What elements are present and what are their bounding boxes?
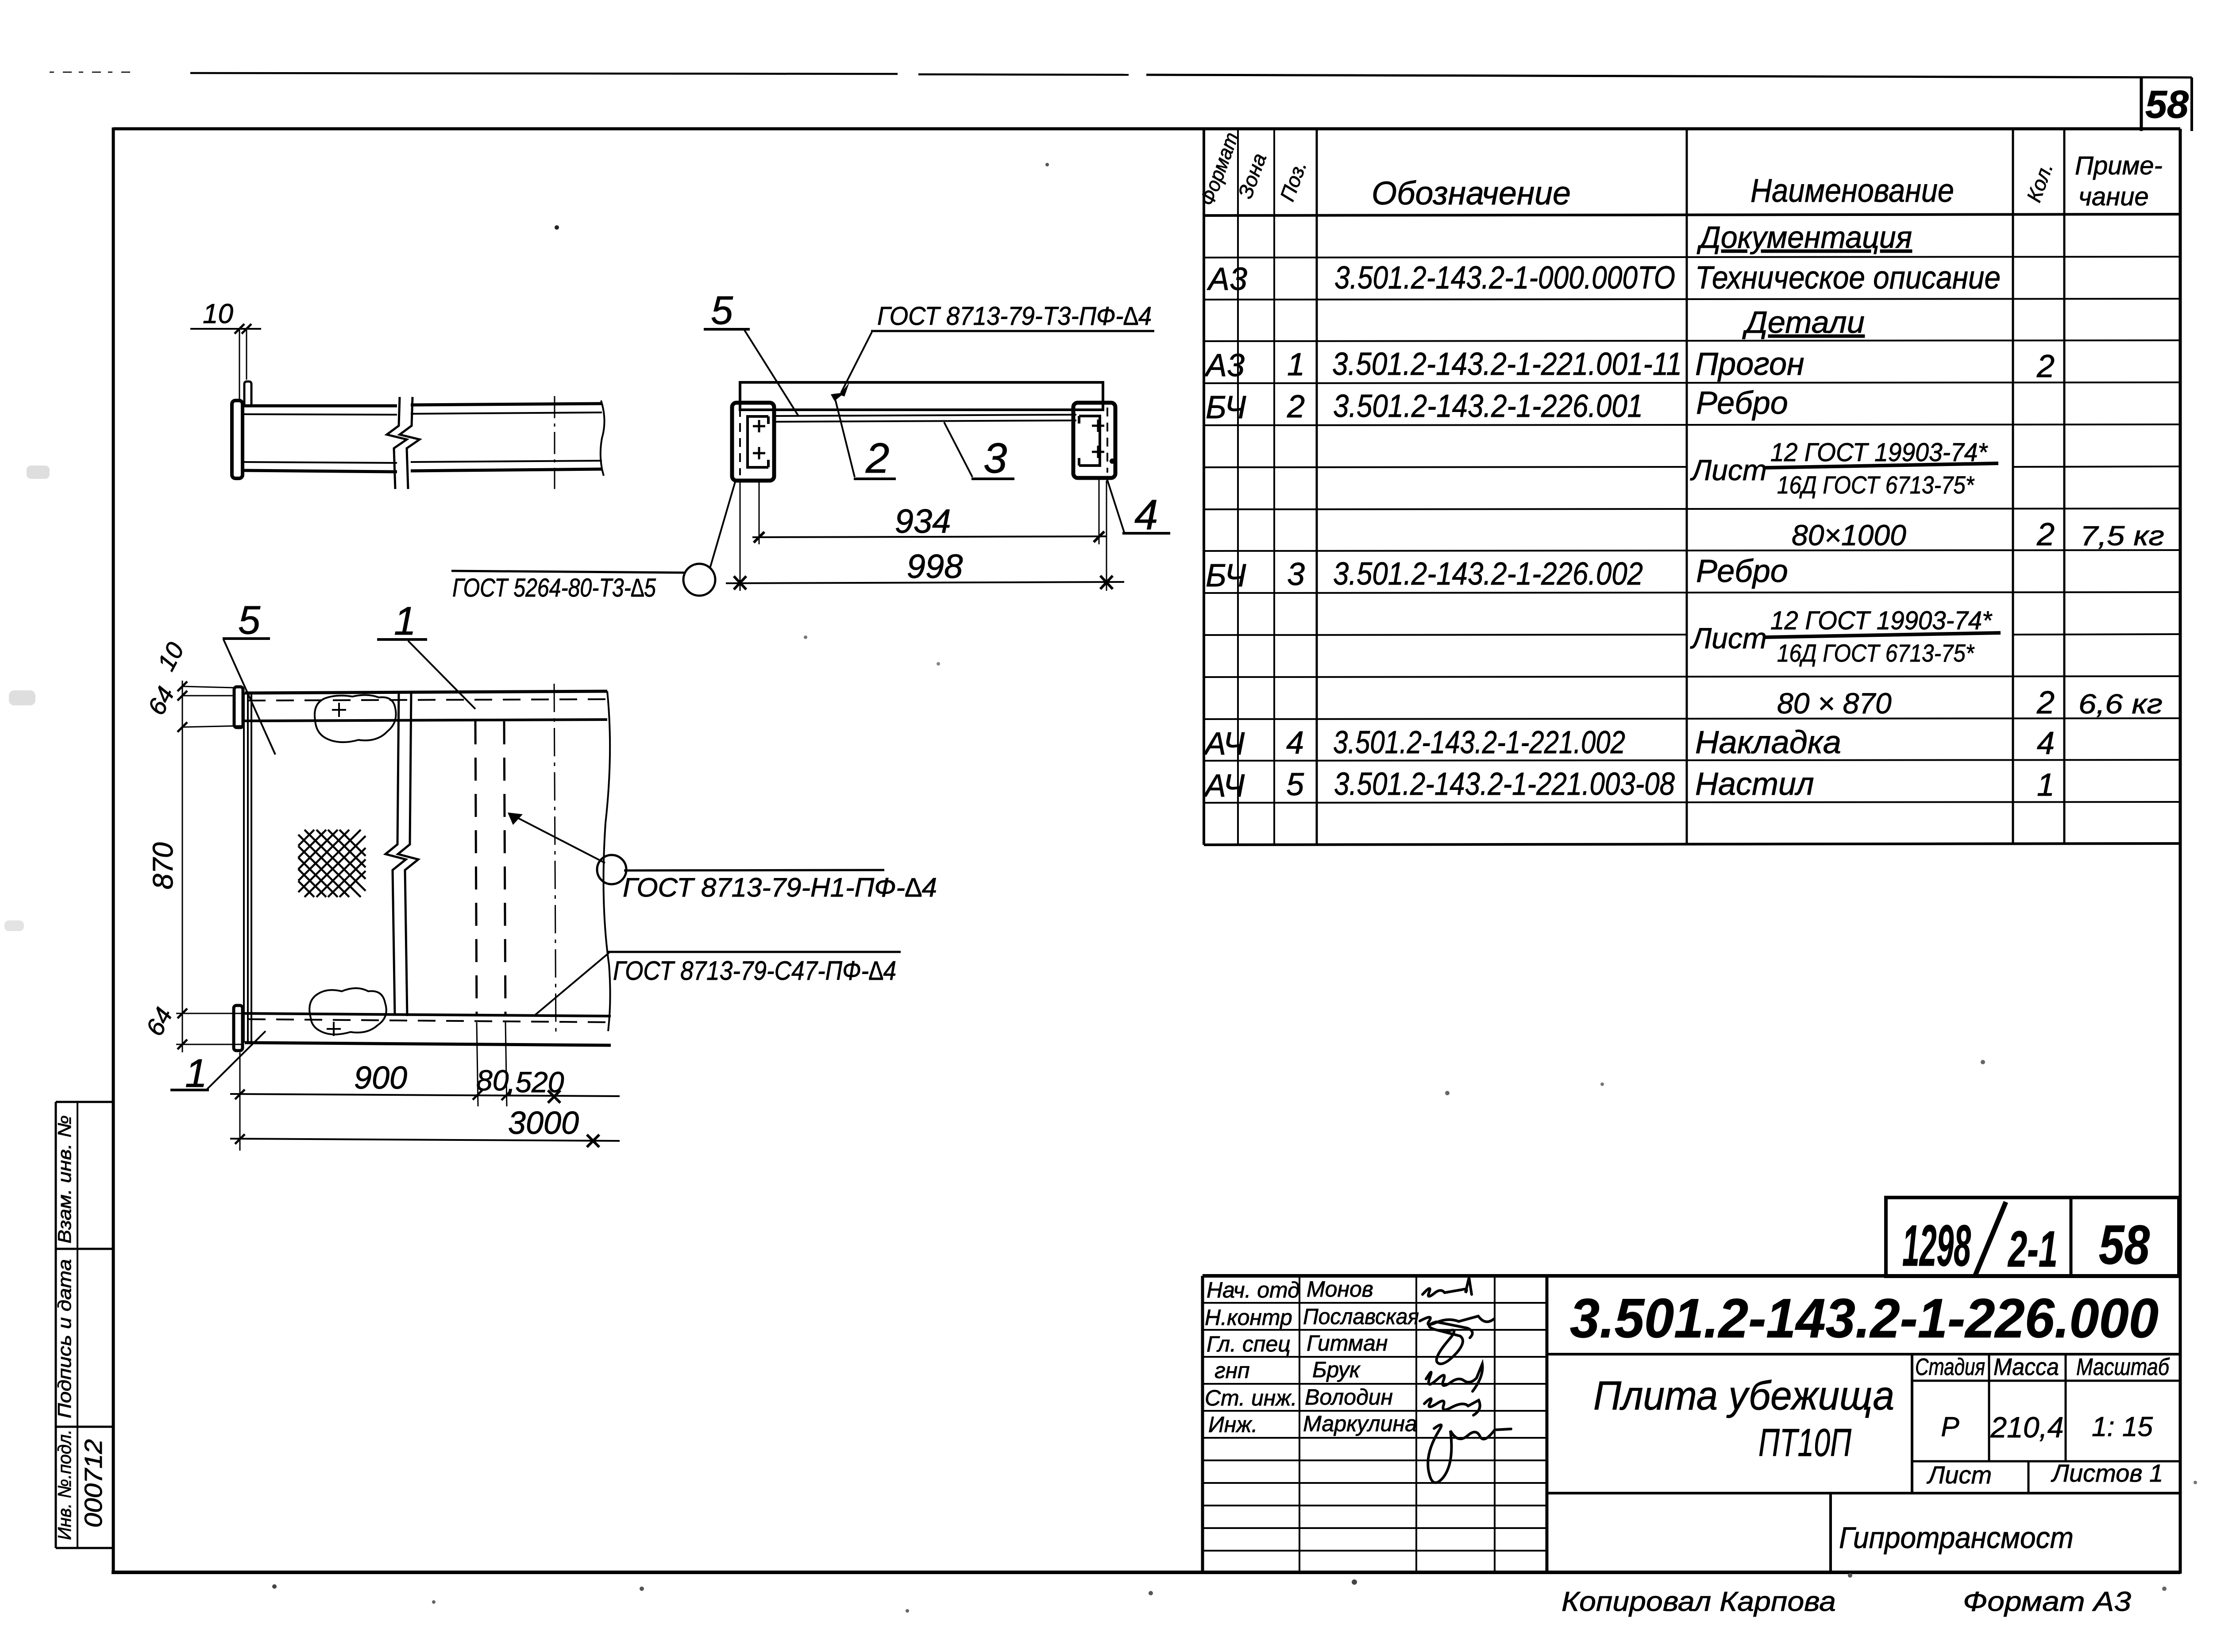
svg-text:гнп: гнп [1214, 1358, 1250, 1383]
deck plate (nastil) [740, 382, 1103, 410]
label 1 bottom leader [170, 1031, 266, 1096]
svg-text:ГОСТ 8713-79-Т3-ПФ-∆4: ГОСТ 8713-79-Т3-ПФ-∆4 [877, 302, 1152, 331]
top beam band [245, 691, 607, 693]
svg-text:6,6 кг: 6,6 кг [2078, 689, 2163, 720]
svg-text:58: 58 [2145, 82, 2189, 126]
svg-text:1: 1 [1287, 347, 1305, 382]
svg-text:Лист: Лист [1927, 1461, 1992, 1489]
left deck edge lines [243, 693, 245, 1043]
break zigzag across the plate [386, 692, 406, 1015]
svg-text:Кол.: Кол. [2022, 160, 2058, 205]
svg-text:Техническое описание: Техническое описание [1695, 260, 2001, 296]
svg-text:БЧ: БЧ [1206, 558, 1246, 593]
svg-text:1: 1 [394, 599, 416, 643]
signature area columns [1299, 1276, 1300, 1572]
svg-text:ГОСТ 5264-80-Т3-∆5: ГОСТ 5264-80-Т3-∆5 [452, 574, 656, 602]
signature area texts [1205, 1277, 1419, 1437]
svg-text:210,4: 210,4 [1990, 1411, 2063, 1444]
SHEETNUM-BOX top right, sheet 58 [2141, 77, 2192, 131]
svg-text:5: 5 [711, 289, 733, 333]
svg-text:Приме-: Приме- [2075, 151, 2163, 180]
svg-text:Формат: Формат [1195, 129, 1243, 208]
svg-text:А3: А3 [1204, 348, 1245, 383]
svg-text:Инж.: Инж. [1208, 1412, 1258, 1437]
label 4 with leader [1107, 479, 1170, 539]
dim 10 [190, 324, 261, 399]
svg-text:10: 10 [203, 299, 233, 329]
svg-text:16Д ГОСТ 6713-75*: 16Д ГОСТ 6713-75* [1777, 471, 1975, 499]
svg-text:Маркулина: Маркулина [1303, 1411, 1417, 1436]
break lines (zigzag) [387, 397, 407, 489]
label 5 with leader [704, 289, 798, 416]
svg-text:ПТ10П: ПТ10П [1758, 1421, 1851, 1464]
label GOST 8713-79-C47 [534, 952, 901, 1016]
SCAN-ARTIFACT-LINE [50, 72, 2192, 77]
svg-text:1: 15: 1: 15 [2092, 1412, 2153, 1442]
svg-text:3.501.2-143.2-1-226.002: 3.501.2-143.2-1-226.002 [1333, 556, 1643, 592]
svg-text:2: 2 [1287, 389, 1305, 424]
svg-text:Н.контр: Н.контр [1205, 1305, 1292, 1330]
label 5 leader [223, 598, 275, 755]
svg-text:4: 4 [1286, 725, 1304, 761]
svg-text:3: 3 [1287, 557, 1305, 592]
svg-text:870: 870 [147, 842, 179, 890]
right area lines [1547, 1353, 2180, 1355]
title block outer and signature grid [1203, 1276, 2180, 1572]
svg-text:Гипротрансмост: Гипротрансмост [1839, 1521, 2074, 1555]
thin plate strip between channels [774, 415, 1076, 416]
left channel (rib section) [732, 403, 774, 481]
svg-text:Ст. инж.: Ст. инж. [1205, 1386, 1297, 1410]
label GOST 8713-79-T3 with leader [840, 302, 1154, 397]
dim 998 [726, 481, 1124, 591]
svg-text:Прогон: Прогон [1695, 347, 1804, 382]
svg-text:7,5 кг: 7,5 кг [2080, 521, 2164, 551]
svg-text:Р: Р [1941, 1412, 1959, 1442]
centerline dash-dot [554, 684, 556, 1038]
svg-text:3.501.2-143.2-1-226.000: 3.501.2-143.2-1-226.000 [1570, 1288, 2159, 1349]
svg-text:Копировал Карпова: Копировал Карпова [1561, 1587, 1836, 1617]
hidden rib dashed lines [475, 721, 477, 1016]
svg-text:5: 5 [238, 598, 261, 643]
weld cloud bottom [309, 988, 386, 1035]
svg-text:2: 2 [2036, 685, 2055, 720]
svg-text:Накладка: Накладка [1695, 725, 1841, 760]
svg-text:Поз.: Поз. [1276, 158, 1311, 204]
svg-text:3.501.2-143.2-1-226.001: 3.501.2-143.2-1-226.001 [1333, 389, 1643, 424]
end plate left [232, 400, 243, 478]
svg-text:000712: 000712 [79, 1439, 107, 1528]
svg-text:Стадия: Стадия [1915, 1354, 1985, 1380]
svg-text:чание: чание [2078, 182, 2149, 211]
label GOST 8713-79-N1 with circle [508, 813, 937, 902]
svg-text:3.501.2-143.2-1-000.000ТО: 3.501.2-143.2-1-000.000ТО [1334, 260, 1675, 296]
weld cloud top [315, 695, 396, 742]
VIEW-A beam side view [190, 299, 605, 489]
bottom dim 3000 [230, 1105, 620, 1147]
svg-text:Лист: Лист [1690, 454, 1767, 486]
svg-text:Гитман: Гитман [1307, 1331, 1388, 1355]
small tab [244, 381, 251, 406]
svg-text:Настил: Настил [1695, 766, 1814, 802]
column headers [1372, 151, 2163, 212]
svg-text:Подпись и дата: Подпись и дата [54, 1259, 75, 1418]
svg-text:,520: ,520 [507, 1066, 564, 1098]
end plates (nakladki) [234, 687, 243, 728]
svg-text:Ребро: Ребро [1696, 385, 1788, 421]
svg-text:16Д ГОСТ 6713-75*: 16Д ГОСТ 6713-75* [1777, 639, 1975, 667]
svg-text:А3: А3 [1207, 262, 1247, 297]
svg-text:4: 4 [1134, 491, 1158, 539]
bottom beam band [245, 1013, 611, 1016]
svg-text:Ребро: Ребро [1696, 554, 1788, 589]
svg-text:Формат А3: Формат А3 [1963, 1587, 2131, 1617]
right wavy cut edge [604, 691, 610, 1031]
centerline dash-dot [554, 396, 555, 489]
table horizontal grid lines [1204, 214, 2180, 845]
svg-text:Наименование: Наименование [1750, 172, 1954, 209]
svg-text:3000: 3000 [508, 1105, 579, 1141]
label 3 with leader [944, 422, 1014, 482]
svg-text:ГОСТ 8713-79-Н1-ПФ-∆4: ГОСТ 8713-79-Н1-ПФ-∆4 [623, 873, 937, 902]
svg-text:БЧ: БЧ [1206, 390, 1246, 425]
svg-text:2-1: 2-1 [2008, 1221, 2058, 1278]
right wavy end [601, 400, 605, 476]
stage mass scale [1915, 1354, 2170, 1489]
svg-text:Нач. отд: Нач. отд [1207, 1278, 1300, 1302]
signatures (squiggles) [1420, 1278, 1511, 1483]
svg-text:Пославская: Пославская [1303, 1304, 1419, 1329]
svg-text:Брук: Брук [1312, 1357, 1361, 1382]
cross-hatch mesh patch [298, 830, 366, 897]
svg-text:5: 5 [1286, 767, 1304, 802]
svg-text:80 × 870: 80 × 870 [1777, 687, 1892, 720]
right channel (rib section) [1073, 403, 1115, 478]
svg-text:1: 1 [2037, 767, 2055, 803]
svg-text:80×1000: 80×1000 [1792, 519, 1906, 551]
svg-text:Инв. №.подл.: Инв. №.подл. [54, 1429, 75, 1540]
svg-text:934: 934 [895, 503, 951, 540]
svg-text:Документация: Документация [1696, 220, 1912, 254]
svg-text:2: 2 [2036, 349, 2055, 384]
VIEW-C plan view [140, 598, 937, 1151]
table body rows [1203, 220, 2164, 804]
svg-text:Володин: Володин [1305, 1385, 1393, 1409]
TITLE-BLOCK [1203, 1198, 2180, 1617]
svg-text:3: 3 [983, 435, 1007, 482]
dim 934 [752, 479, 1106, 544]
svg-text:АЧ: АЧ [1203, 726, 1245, 762]
svg-text:Взам. инв. №: Взам. инв. № [54, 1115, 75, 1244]
svg-text:Монов: Монов [1307, 1277, 1373, 1302]
svg-text:1298: 1298 [1902, 1213, 1971, 1278]
svg-text:Зона: Зона [1234, 150, 1271, 201]
label 1 top leader [377, 599, 475, 709]
signature area rows (pitch 51.5) [1203, 1302, 1547, 1304]
LEFT-STRIP [54, 1102, 113, 1548]
LEFT-STRIP [0, 0, 0, 0]
svg-text:80: 80 [476, 1064, 509, 1097]
svg-text:Масштаб: Масштаб [2076, 1354, 2170, 1380]
svg-text:Обозначение: Обозначение [1372, 175, 1571, 212]
svg-text:Масса: Масса [1993, 1354, 2059, 1380]
rotated column headers [1195, 129, 2058, 208]
svg-text:Гл. спец: Гл. спец [1207, 1332, 1291, 1356]
svg-text:64: 64 [142, 682, 180, 720]
svg-text:Детали: Детали [1742, 305, 1865, 339]
left dims [140, 638, 243, 1052]
svg-text:12 ГОСТ 19903-74*: 12 ГОСТ 19903-74* [1770, 606, 1993, 635]
doc number box 1298/2-1 | 58 [1886, 1198, 2179, 1278]
svg-text:3.501.2-143.2-1-221.001-11: 3.501.2-143.2-1-221.001-11 [1332, 347, 1682, 382]
top flange lines [243, 404, 397, 408]
svg-text:10: 10 [152, 638, 189, 675]
bottom flange lines [243, 462, 397, 463]
svg-text:Плита убежища: Плита убежища [1593, 1373, 1894, 1418]
label 2 with leader [829, 387, 896, 482]
bottom dims 900 / 80,520 [230, 1022, 620, 1151]
svg-text:3.501.2-143.2-1-221.002: 3.501.2-143.2-1-221.002 [1333, 725, 1625, 760]
svg-text:Лист: Лист [1690, 622, 1767, 655]
svg-text:2: 2 [865, 435, 889, 482]
svg-text:Листов 1: Листов 1 [2051, 1459, 2163, 1487]
svg-text:58: 58 [2099, 1214, 2150, 1276]
svg-text:АЧ: АЧ [1203, 768, 1245, 804]
svg-text:64: 64 [140, 1003, 178, 1040]
svg-text:4: 4 [2037, 726, 2055, 761]
PARTS-TABLE [1195, 129, 2180, 845]
weld symbol circle + GOST 5264 label [451, 479, 736, 602]
svg-text:998: 998 [907, 548, 963, 585]
svg-text:3.501.2-143.2-1-221.003-08: 3.501.2-143.2-1-221.003-08 [1334, 766, 1675, 802]
svg-text:900: 900 [354, 1060, 407, 1096]
svg-text:2: 2 [2036, 517, 2055, 552]
svg-text:ГОСТ 8713-79-С47-ПФ-∆4: ГОСТ 8713-79-С47-ПФ-∆4 [613, 956, 896, 986]
VIEW-B section with channels [451, 289, 1170, 602]
table vertical grid lines [1204, 129, 2064, 845]
